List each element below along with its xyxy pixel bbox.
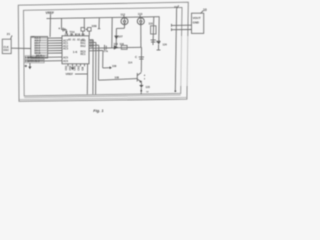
svg-text:114: 114 — [128, 61, 133, 65]
svg-text:112: 112 — [121, 12, 126, 16]
svg-text:117: 117 — [156, 39, 161, 43]
svg-text:AC3: AC3 — [63, 47, 69, 50]
svg-text:17a: 17a — [104, 49, 109, 53]
svg-text:GN: GN — [82, 67, 85, 71]
svg-text:10: 10 — [203, 8, 207, 12]
svg-text:Fig. 1: Fig. 1 — [93, 108, 104, 113]
svg-text:103: 103 — [114, 42, 119, 46]
svg-text:11: 11 — [174, 5, 178, 9]
svg-text:RC1: RC1 — [81, 53, 87, 56]
svg-text:CK2: CK2 — [78, 65, 81, 70]
svg-text:21: 21 — [7, 32, 11, 36]
svg-text:OS2: OS2 — [69, 65, 72, 70]
svg-text:GND: GND — [193, 20, 199, 24]
svg-text:108: 108 — [115, 75, 120, 79]
svg-text:104: 104 — [120, 42, 125, 46]
svg-text:110: 110 — [149, 21, 154, 25]
svg-text:10B: 10B — [92, 24, 97, 28]
svg-text:2: 2 — [144, 78, 146, 80]
svg-text:1-6: 1-6 — [73, 50, 78, 54]
svg-text:107: 107 — [118, 35, 123, 39]
svg-text:CK1: CK1 — [74, 65, 77, 70]
svg-text:4: 4 — [144, 74, 146, 77]
svg-text:C: C — [135, 55, 137, 59]
svg-text:113: 113 — [138, 12, 143, 16]
svg-text:124: 124 — [163, 42, 168, 46]
svg-text:OS1: OS1 — [65, 65, 68, 70]
svg-text:OSC: OSC — [3, 48, 9, 52]
svg-text:CK: CK — [82, 34, 86, 36]
svg-text:CA: CA — [70, 33, 74, 36]
svg-text:A0: A0 — [68, 38, 72, 41]
svg-text:12: 12 — [146, 92, 149, 94]
svg-text:123: 123 — [146, 85, 151, 89]
svg-text:VREF: VREF — [46, 11, 55, 15]
svg-text:A1: A1 — [73, 38, 77, 41]
svg-text:AC6: AC6 — [63, 60, 69, 63]
svg-text:109: 109 — [112, 64, 117, 68]
svg-text:VREF: VREF — [66, 72, 74, 76]
svg-text:RA2: RA2 — [81, 45, 87, 48]
